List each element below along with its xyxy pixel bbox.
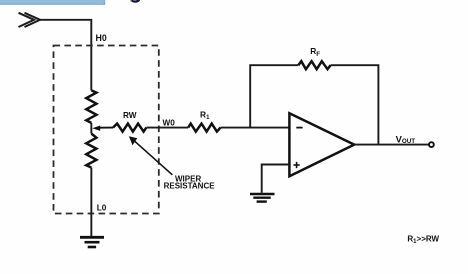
wire pot bottom to ground xyxy=(90,168,92,237)
svg-text:H0: H0 xyxy=(96,33,107,43)
resistor RF xyxy=(298,61,330,69)
svg-text:RESISTANCE: RESISTANCE xyxy=(164,181,216,190)
wire feedback left xyxy=(250,65,298,127)
wire output xyxy=(354,144,429,146)
wire non-inverting input to ground xyxy=(262,165,290,193)
cropped title glyph (bottom of letter) xyxy=(130,0,140,3)
svg-text:R1>>RW: R1>>RW xyxy=(407,234,439,244)
op-amp U1 xyxy=(289,113,354,176)
svg-text:W0: W0 xyxy=(163,118,176,127)
resistor R1 xyxy=(188,124,220,132)
resistor RW xyxy=(113,124,146,132)
svg-text:L0: L0 xyxy=(97,204,107,213)
ground (op-amp) xyxy=(250,194,275,202)
output terminal xyxy=(429,142,434,147)
wire wiper segment xyxy=(90,123,92,134)
potentiometer lower element xyxy=(86,134,96,168)
pin plus xyxy=(294,164,300,166)
svg-text:RW: RW xyxy=(123,111,137,120)
wiper arrow xyxy=(99,127,113,129)
wiper resistance callout arrow xyxy=(132,139,172,175)
dashed box (pot outline) xyxy=(54,46,159,214)
wire R1 to inverting input xyxy=(221,127,290,129)
pin minus xyxy=(296,127,302,129)
ground (pot) xyxy=(80,237,104,247)
wire input to H0 xyxy=(40,20,91,91)
blue header bar fragment xyxy=(0,0,105,5)
input chevron arrow xyxy=(19,13,41,27)
wire W0 xyxy=(146,127,188,129)
potentiometer upper element xyxy=(86,90,96,123)
wire feedback right xyxy=(331,65,379,144)
